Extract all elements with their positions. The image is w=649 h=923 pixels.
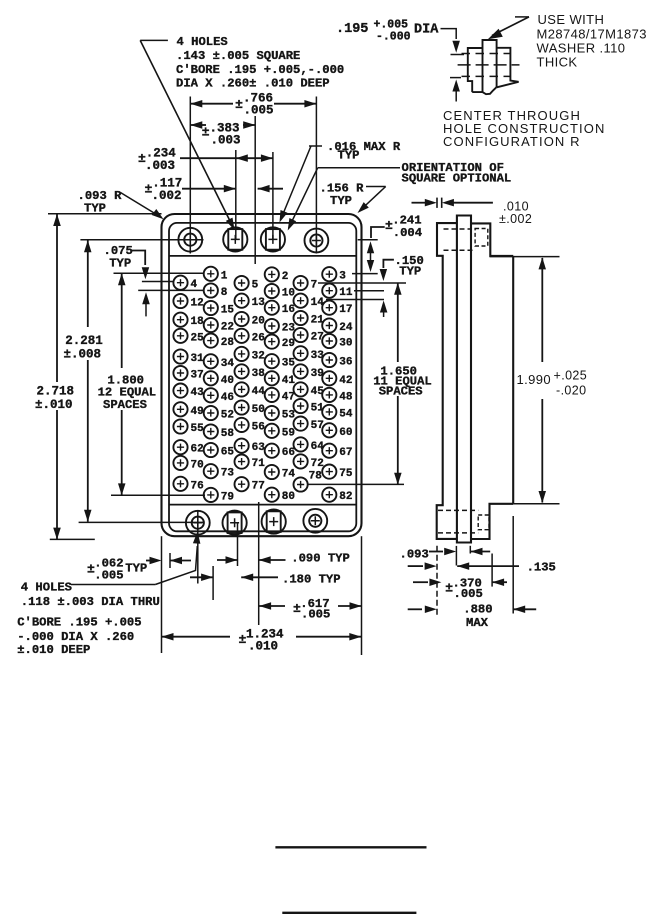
contact pin 29 xyxy=(265,335,279,349)
contact pin 72 xyxy=(294,454,308,468)
svg-text:.880: .880 xyxy=(463,603,492,617)
dim .117 square hole to center xyxy=(182,188,236,190)
leader 4 HOLES to square hole 2 xyxy=(140,40,233,228)
svg-text:32: 32 xyxy=(252,350,265,362)
contact pin 78 xyxy=(294,477,308,491)
top-left mounting hole (c'bore) xyxy=(178,228,202,252)
svg-text:7: 7 xyxy=(311,280,318,292)
svg-text:49: 49 xyxy=(191,406,204,418)
svg-text:25: 25 xyxy=(191,332,205,344)
svg-text:SPACES: SPACES xyxy=(379,385,423,399)
svg-text:DIA: DIA xyxy=(414,22,439,37)
contact pin 44 xyxy=(235,382,249,396)
contact pin 60 xyxy=(322,423,336,437)
svg-text:2.718: 2.718 xyxy=(37,385,75,399)
svg-text:67: 67 xyxy=(339,447,352,459)
svg-text:76: 76 xyxy=(191,480,204,492)
contact pin 55 xyxy=(173,419,187,433)
contact pin 82 xyxy=(322,488,336,502)
side view shroud face xyxy=(512,256,514,504)
contact pin 5 xyxy=(235,276,249,290)
contact pin 56 xyxy=(235,418,249,432)
contact pin 77 xyxy=(235,477,249,491)
svg-text:80: 80 xyxy=(282,491,295,503)
bottom hole2 centerline down xyxy=(237,523,239,566)
contact pin 30 xyxy=(322,334,336,348)
dim .195 DIA arrows on washer xyxy=(441,29,457,39)
svg-text:-.020: -.020 xyxy=(556,384,587,398)
svg-text:M28748/17M1873: M28748/17M1873 xyxy=(537,26,647,41)
contact pin 24 xyxy=(322,318,336,332)
contact pin 10 xyxy=(265,284,279,298)
svg-text:.180 TYP: .180 TYP xyxy=(282,573,341,587)
svg-text:.005: .005 xyxy=(454,587,483,601)
hole row centerline extension right xyxy=(358,239,378,241)
svg-text:2: 2 xyxy=(282,271,289,283)
svg-text:4 HOLES: 4 HOLES xyxy=(177,35,228,49)
svg-text:.005: .005 xyxy=(244,104,274,118)
svg-text:60: 60 xyxy=(339,427,352,439)
pin 3 row extension right xyxy=(352,273,378,275)
svg-text:DIA X .260± .010 DEEP: DIA X .260± .010 DEEP xyxy=(176,77,330,91)
svg-text:.143 ±.005 SQUARE: .143 ±.005 SQUARE xyxy=(176,49,300,63)
svg-text:5: 5 xyxy=(252,280,259,292)
dim .880 MAX xyxy=(408,608,422,610)
svg-text:TYP: TYP xyxy=(338,149,360,163)
dim .135 xyxy=(408,565,423,567)
contact pin 52 xyxy=(204,406,218,420)
contact pin 33 xyxy=(294,346,308,360)
footer rule 1 xyxy=(275,846,426,848)
body top edge extension left xyxy=(48,213,162,215)
svg-text:-.000 DIA X .260: -.000 DIA X .260 xyxy=(17,630,134,644)
dim 1.990 overall length xyxy=(490,256,560,258)
svg-text:59: 59 xyxy=(282,427,295,439)
contact pin 26 xyxy=(235,329,249,343)
svg-text:24: 24 xyxy=(339,322,353,334)
contact pin 35 xyxy=(265,354,279,368)
dim 1.800 12 EQUAL SPACES vertical xyxy=(121,273,123,368)
svg-text:37: 37 xyxy=(191,370,204,382)
svg-text:MAX: MAX xyxy=(466,616,489,630)
contact pin 43 xyxy=(173,384,187,398)
top flange hidden hole lines xyxy=(444,228,472,230)
washer body right section with break tail xyxy=(497,48,519,88)
contact pin 1 xyxy=(204,267,218,281)
svg-text:79: 79 xyxy=(221,491,234,503)
svg-text:42: 42 xyxy=(339,375,352,387)
svg-text:50: 50 xyxy=(252,404,265,416)
contact pin 62 xyxy=(173,440,187,454)
svg-text:TYP: TYP xyxy=(125,562,147,576)
svg-text:±.010: ±.010 xyxy=(35,398,73,412)
svg-text:74: 74 xyxy=(282,469,296,481)
svg-text:SPACES: SPACES xyxy=(103,398,147,412)
contact pin 25 xyxy=(173,329,187,343)
svg-text:.010: .010 xyxy=(248,640,278,654)
2.718 bottom tick xyxy=(50,538,95,540)
svg-text:CONFIGURATION R: CONFIGURATION R xyxy=(443,134,581,149)
footer rule 2 xyxy=(282,912,416,914)
pin row 2 extension left xyxy=(142,281,173,283)
contact pin 67 xyxy=(322,444,336,458)
dim .234 between square holes xyxy=(180,157,273,159)
top square hole 3 xyxy=(261,227,285,251)
svg-text:C'BORE .195 +.005: C'BORE .195 +.005 xyxy=(17,616,141,630)
chord line below top mounting holes xyxy=(169,255,356,257)
contact pin 22 xyxy=(204,318,218,332)
svg-text:3: 3 xyxy=(339,271,346,283)
svg-text:75: 75 xyxy=(339,468,353,480)
side view top flange right outline xyxy=(471,223,513,256)
contact pin 58 xyxy=(204,424,218,438)
side view insulator rail xyxy=(457,216,471,543)
svg-text:TYP: TYP xyxy=(399,265,421,279)
contact pin 75 xyxy=(322,465,336,479)
svg-text:77: 77 xyxy=(252,481,265,493)
svg-text:26: 26 xyxy=(252,332,265,344)
vertical centerline of body xyxy=(254,116,256,264)
washer centerline xyxy=(458,64,520,66)
svg-text:13: 13 xyxy=(252,297,266,309)
body centerline extension down xyxy=(258,502,260,625)
contact pin 49 xyxy=(173,402,187,416)
contact pin 65 xyxy=(204,443,218,457)
svg-text:66: 66 xyxy=(282,447,295,459)
svg-text:15: 15 xyxy=(221,305,235,317)
svg-text:46: 46 xyxy=(221,392,234,404)
svg-text:78: 78 xyxy=(309,471,323,483)
svg-text:USE WITH: USE WITH xyxy=(538,12,605,27)
inner lip extension down xyxy=(169,553,171,568)
contact pin 13 xyxy=(235,294,249,308)
contact pin 41 xyxy=(265,371,279,385)
dim .370 xyxy=(413,581,428,583)
contact pin 42 xyxy=(322,371,336,385)
svg-text:.135: .135 xyxy=(527,561,556,575)
svg-text:34: 34 xyxy=(221,358,235,370)
svg-text:41: 41 xyxy=(282,375,296,387)
svg-text:71: 71 xyxy=(252,458,266,470)
contact pin 23 xyxy=(265,319,279,333)
svg-text:WASHER .110: WASHER .110 xyxy=(537,41,626,56)
svg-text:17: 17 xyxy=(339,304,352,316)
contact pin 31 xyxy=(173,349,187,363)
svg-text:70: 70 xyxy=(191,459,204,471)
contact pin 20 xyxy=(235,312,249,326)
contact pin 45 xyxy=(294,382,308,396)
contact pin 70 xyxy=(173,456,187,470)
dim .383 hole to center xyxy=(190,124,206,126)
svg-text:SQUARE OPTIONAL: SQUARE OPTIONAL xyxy=(402,172,512,186)
svg-text:44: 44 xyxy=(252,386,266,398)
contact pin 53 xyxy=(265,406,279,420)
centerline through top-left hole xyxy=(80,239,203,241)
svg-text:2.281: 2.281 xyxy=(65,334,103,348)
contact pin 18 xyxy=(173,313,187,327)
contact pin 38 xyxy=(235,364,249,378)
contact pin 76 xyxy=(173,477,187,491)
contact pin 14 xyxy=(294,294,308,308)
svg-text:54: 54 xyxy=(339,408,353,420)
svg-text:THICK: THICK xyxy=(537,55,578,70)
svg-text:48: 48 xyxy=(339,391,353,403)
contact pin 36 xyxy=(322,353,336,367)
svg-text:65: 65 xyxy=(221,447,235,459)
contact pin 11 xyxy=(322,284,336,298)
extension lines below side view xyxy=(436,546,438,615)
svg-text:63: 63 xyxy=(252,442,266,454)
dim 1.234 overall width xyxy=(162,636,231,638)
leader to bottom-left hole xyxy=(71,584,155,586)
washer hidden hole dashed lines xyxy=(462,53,510,55)
contact pin 16 xyxy=(265,301,279,315)
contact pin 79 xyxy=(204,488,218,502)
contact pin 4 xyxy=(173,276,187,290)
contact pin 21 xyxy=(294,311,308,325)
dim 2.281 vertical xyxy=(87,240,89,327)
top square hole 2 xyxy=(223,227,247,251)
contact pin 2 xyxy=(265,267,279,281)
chord line above bottom mounting holes xyxy=(169,504,356,506)
pin column B extension down xyxy=(212,566,214,600)
contact pin 47 xyxy=(265,388,279,402)
svg-text:29: 29 xyxy=(282,338,295,350)
svg-text:56: 56 xyxy=(252,421,265,433)
svg-text:TYP: TYP xyxy=(84,202,106,216)
body right edge extension down xyxy=(361,536,363,655)
contact pin 8 xyxy=(204,283,218,297)
svg-text:±: ± xyxy=(235,97,243,112)
contact pin 80 xyxy=(265,488,279,502)
svg-text:.002: .002 xyxy=(152,189,182,203)
svg-text:38: 38 xyxy=(252,368,266,380)
contact pin 74 xyxy=(265,465,279,479)
svg-text:±.008: ±.008 xyxy=(64,348,102,362)
pin row 3 extension left xyxy=(138,289,203,291)
1.800 top tick through pin 1 row xyxy=(114,272,205,274)
contact pin 15 xyxy=(204,301,218,315)
dim .766 between outer holes xyxy=(190,103,233,105)
svg-text:.005: .005 xyxy=(301,608,330,622)
pin 11 row extension right xyxy=(354,290,384,292)
contact pin 3 xyxy=(322,267,336,281)
extension line above square hole 3 xyxy=(272,152,274,240)
top-right mounting hole (c'bore) xyxy=(305,229,329,253)
svg-text:.005: .005 xyxy=(94,569,123,583)
dim row .180 TYP xyxy=(190,576,213,578)
svg-text:4 HOLES: 4 HOLES xyxy=(21,581,72,595)
svg-text:62: 62 xyxy=(191,444,204,456)
extension line above top-left hole xyxy=(189,97,191,254)
contact pin 28 xyxy=(204,334,218,348)
body left edge extension down xyxy=(161,536,163,653)
dim row .090 TYP xyxy=(146,560,152,562)
side view flange plate outline xyxy=(437,223,457,539)
contact pin 63 xyxy=(235,439,249,453)
contact pin 50 xyxy=(235,400,249,414)
contact pin 27 xyxy=(294,328,308,342)
svg-text:12: 12 xyxy=(191,298,204,310)
side view shroud bottom step xyxy=(471,504,513,539)
svg-text:55: 55 xyxy=(191,423,205,435)
svg-text:40: 40 xyxy=(221,375,234,387)
svg-text:.093: .093 xyxy=(400,548,429,562)
svg-text:TYP: TYP xyxy=(109,256,131,270)
svg-text:11: 11 xyxy=(339,287,353,299)
contact pin 46 xyxy=(204,388,218,402)
svg-text:28: 28 xyxy=(221,337,235,349)
dim .617 xyxy=(259,602,271,610)
bottom square hole 2 xyxy=(223,511,247,535)
svg-text:8: 8 xyxy=(221,287,228,299)
bottom square hole 3 xyxy=(262,509,286,533)
connector body outer outline xyxy=(162,214,362,536)
callout 4 HOLES .143 square c'bore xyxy=(140,39,168,41)
contact pin 73 xyxy=(204,464,218,478)
svg-text:30: 30 xyxy=(339,338,352,350)
svg-text:TYP: TYP xyxy=(330,194,352,208)
pin 14 row extension right xyxy=(326,299,384,301)
extension line above top-right hole xyxy=(315,97,317,254)
svg-text:.090 TYP: .090 TYP xyxy=(291,552,350,566)
svg-text:.118 ±.003 DIA THRU: .118 ±.003 DIA THRU xyxy=(21,595,160,609)
bottom flange hidden hole lines xyxy=(438,509,478,511)
svg-text:47: 47 xyxy=(282,391,295,403)
svg-text:.195: .195 xyxy=(336,22,368,37)
dim .010 flange offset xyxy=(436,198,438,208)
contact pin 12 xyxy=(173,294,187,308)
svg-text:72: 72 xyxy=(311,458,324,470)
dim 1.650 11 EQUAL SPACES vertical xyxy=(397,283,399,362)
contact pin 64 xyxy=(294,437,308,451)
contact pin 37 xyxy=(173,366,187,380)
svg-text:73: 73 xyxy=(221,468,235,480)
svg-text:.003: .003 xyxy=(145,159,175,173)
washer detail center pin rectangle xyxy=(483,40,497,92)
bottom-right mounting hole (c'bore) xyxy=(303,509,327,533)
svg-text:36: 36 xyxy=(339,357,352,369)
washer pin bottom break curve xyxy=(472,87,496,94)
svg-text:-.000: -.000 xyxy=(376,31,411,44)
svg-text:18: 18 xyxy=(191,316,205,328)
contact pin 32 xyxy=(235,347,249,361)
svg-text:1.990: 1.990 xyxy=(517,372,552,387)
contact pin 57 xyxy=(294,417,308,431)
svg-text:53: 53 xyxy=(282,410,296,422)
washer body left section with tab xyxy=(468,48,483,92)
contact pin 17 xyxy=(322,301,336,315)
svg-text:+.025: +.025 xyxy=(554,369,588,383)
svg-text:4: 4 xyxy=(191,279,198,291)
contact pin 7 xyxy=(294,276,308,290)
contact pin 54 xyxy=(322,405,336,419)
svg-text:.003: .003 xyxy=(211,133,241,147)
svg-text:22: 22 xyxy=(221,322,234,334)
svg-text:±.010 DEEP: ±.010 DEEP xyxy=(17,643,90,657)
connector body inner outline xyxy=(169,223,356,531)
centerline through bottom-left hole xyxy=(79,521,203,523)
contact pin 48 xyxy=(322,388,336,402)
contact pin 39 xyxy=(294,364,308,378)
1.650 top tick from pin 7 xyxy=(318,282,406,284)
contact pin 40 xyxy=(204,371,218,385)
contact pin 71 xyxy=(235,455,249,469)
svg-text:82: 82 xyxy=(339,491,352,503)
svg-text:20: 20 xyxy=(252,316,265,328)
contact pin 34 xyxy=(204,354,218,368)
leader USE WITH to washer xyxy=(515,16,529,18)
bottom-left mounting hole (c'bore) xyxy=(186,511,210,535)
svg-text:52: 52 xyxy=(221,410,234,422)
contact pin 66 xyxy=(265,444,279,458)
svg-text:16: 16 xyxy=(282,304,295,316)
svg-text:43: 43 xyxy=(191,387,205,399)
1.800 bottom tick through pin 79 xyxy=(111,494,205,496)
svg-text:31: 31 xyxy=(191,353,205,365)
svg-text:C'BORE .195 +.005,-.000: C'BORE .195 +.005,-.000 xyxy=(176,63,344,77)
bottom hole1 centerline down xyxy=(197,510,199,584)
1.650 bottom tick from pin 78 xyxy=(307,483,404,485)
svg-text:10: 10 xyxy=(282,288,295,300)
contact pin 51 xyxy=(294,399,308,413)
extension line above square hole 2 xyxy=(235,150,237,240)
contact pin 59 xyxy=(265,424,279,438)
svg-text:.004: .004 xyxy=(393,226,422,240)
svg-text:58: 58 xyxy=(221,428,235,440)
svg-text:±.002: ±.002 xyxy=(499,212,532,226)
svg-text:1: 1 xyxy=(221,270,228,282)
dim 2.718 vertical xyxy=(56,214,58,382)
